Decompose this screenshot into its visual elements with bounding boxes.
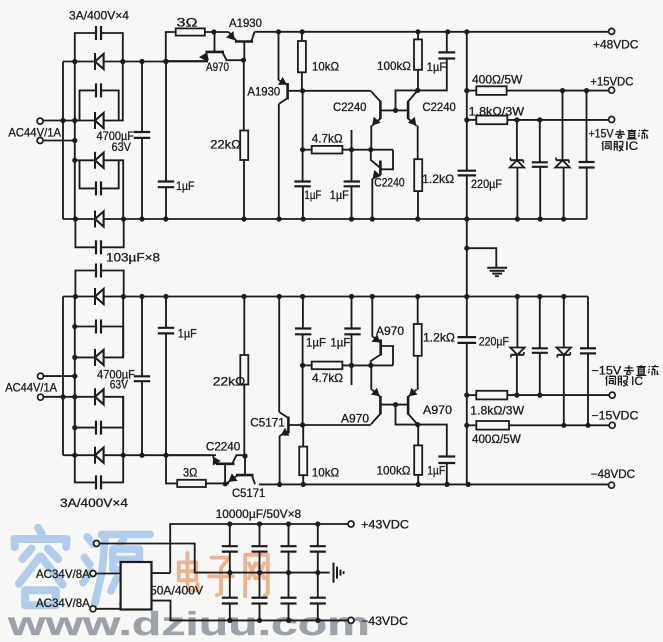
capacitor CZ6 bbox=[539, 297, 541, 349]
resistor 1.8k 3W bottom bbox=[467, 394, 477, 396]
wire Q9 base right bbox=[288, 424, 371, 426]
terminal +15V servo bbox=[609, 117, 615, 123]
terminal +48VDC bbox=[609, 28, 615, 34]
capacitor snubber C8 loop below row8 bbox=[75, 455, 96, 482]
svg-text:AC44V/1A: AC44V/1A bbox=[5, 381, 57, 395]
capacitor CZ2 bbox=[539, 120, 541, 162]
svg-text:1µF: 1µF bbox=[306, 336, 326, 350]
svg-text:4.7kΩ: 4.7kΩ bbox=[312, 132, 343, 146]
svg-text:1.2kΩ: 1.2kΩ bbox=[422, 172, 454, 186]
svg-text:22kΩ: 22kΩ bbox=[210, 138, 241, 152]
AC terminal T3 bbox=[38, 373, 44, 379]
svg-text:A970: A970 bbox=[206, 60, 229, 74]
wire 4.7k node bbox=[303, 149, 312, 151]
wire +43 to bridge block bbox=[152, 572, 171, 574]
wire 10k line up through 1uF bottom bbox=[302, 365, 304, 425]
junction dots -43 rail bbox=[227, 618, 232, 623]
wire stub below 4.7k node bottom bbox=[351, 365, 353, 385]
capacitor 1uF pair C bbox=[302, 297, 304, 329]
bus B2 vertical bbox=[74, 297, 76, 456]
watermark 电 bbox=[179, 553, 198, 591]
svg-text:−43VDC: −43VDC bbox=[361, 614, 408, 628]
svg-text:A970: A970 bbox=[376, 324, 404, 338]
svg-text:22kΩ: 22kΩ bbox=[213, 375, 246, 389]
wire 0V mid rail bbox=[63, 218, 95, 220]
wire -43 rail bbox=[152, 601, 352, 621]
svg-text:1.8kΩ/3W: 1.8kΩ/3W bbox=[469, 105, 525, 119]
svg-text:3Ω: 3Ω bbox=[177, 16, 198, 30]
svg-text:AC44V/1A: AC44V/1A bbox=[8, 126, 61, 140]
diode D3 row3 bbox=[75, 159, 95, 161]
terminal +15VDC bbox=[609, 87, 615, 93]
wire output bus vertical bbox=[466, 32, 468, 171]
AC terminal T2 bbox=[37, 138, 43, 144]
junction dots 0V rail bottom bbox=[73, 294, 78, 299]
wire 0V rail bottom bbox=[63, 296, 95, 298]
ground symbol psu bbox=[333, 563, 335, 583]
transistor C5171 Q8 pass bbox=[236, 474, 254, 477]
capacitor snubber C3 loop bbox=[80, 160, 97, 188]
capacitor bank 10000uF x8 bbox=[229, 524, 231, 546]
watermark 子 bbox=[209, 558, 233, 596]
svg-text:www.dziuu.com: www.dziuu.com bbox=[7, 605, 370, 642]
capacitor 103uF snubber C1 loop bbox=[75, 33, 96, 62]
resistor 400ohm 5W bbox=[467, 90, 477, 92]
capacitor 220uF bottom bbox=[458, 336, 477, 338]
resistor 100k bottom bbox=[417, 425, 419, 446]
junction dots mid rail bbox=[227, 570, 232, 575]
wire AC T2 to bus B bbox=[43, 140, 75, 142]
wire T3 to bus B2 bbox=[43, 375, 74, 377]
svg-text:1µF: 1µF bbox=[330, 188, 349, 202]
svg-text:10kΩ: 10kΩ bbox=[312, 466, 339, 480]
svg-text:1µF: 1µF bbox=[427, 464, 445, 478]
svg-text:C2240: C2240 bbox=[422, 100, 456, 114]
svg-text:+15V: +15V bbox=[589, 129, 614, 141]
AC terminal T1 bbox=[37, 118, 43, 124]
resistor 22k bbox=[240, 131, 248, 161]
bus B vertical bbox=[74, 62, 76, 220]
capacitor 1uF pair D bbox=[351, 297, 353, 329]
resistor 10k bbox=[301, 32, 303, 41]
diode D7 row7 bbox=[43, 396, 95, 398]
junction dots row1 bbox=[72, 59, 77, 64]
svg-text:63V: 63V bbox=[110, 378, 128, 392]
capacitor snubber C5 loop above rail bbox=[75, 271, 96, 297]
capacitor 220uF bbox=[458, 170, 477, 172]
svg-text:220µF: 220µF bbox=[479, 335, 509, 349]
ground symbol bbox=[487, 267, 507, 269]
transistor A1930 Q3 driver bbox=[278, 32, 280, 80]
wire 3ohm right to rail bbox=[205, 31, 229, 33]
wire 3ohm bottom drop bbox=[166, 455, 177, 483]
junction dots mid rail bbox=[73, 216, 78, 221]
svg-text:1.2kΩ: 1.2kΩ bbox=[423, 331, 455, 345]
wire 10k line down through 1uF bbox=[302, 91, 304, 150]
svg-text:63V: 63V bbox=[112, 140, 132, 154]
svg-text:1µF: 1µF bbox=[176, 179, 195, 193]
resistor 1.2k bbox=[414, 159, 422, 191]
wire stub above 4.7k node bbox=[351, 130, 353, 150]
wire Q1 emitter to bridge bbox=[166, 60, 208, 62]
wire ground tap bbox=[466, 219, 468, 297]
transistor C2240 Q6 bbox=[371, 150, 381, 168]
wire 3ohm left drop bbox=[166, 32, 176, 62]
wire +43 rail bbox=[170, 524, 351, 573]
svg-text:AC34V/8A: AC34V/8A bbox=[36, 596, 90, 610]
terminal -48VDC bbox=[609, 482, 615, 488]
svg-text:100kΩ: 100kΩ bbox=[377, 464, 411, 478]
AC terminal T6 bbox=[90, 606, 96, 612]
resistor 100k bbox=[417, 32, 419, 40]
capacitor CZ8 bbox=[587, 297, 589, 349]
AC terminal T4 bbox=[38, 394, 44, 400]
capacitor 1uF top right bbox=[446, 32, 448, 53]
svg-text:AC34V/8A: AC34V/8A bbox=[36, 567, 90, 581]
transistor C2240 Q4 left bbox=[371, 91, 381, 101]
watermark 容 bbox=[14, 528, 66, 606]
junction dots row8 bbox=[72, 453, 77, 458]
resistor 3 ohm bottom bbox=[177, 480, 206, 487]
terminal -15V servo bbox=[609, 392, 615, 398]
svg-text:3A/400V×4: 3A/400V×4 bbox=[60, 496, 128, 510]
svg-text:1µF: 1µF bbox=[304, 188, 321, 202]
transistor A1930 Q2 pass bbox=[235, 40, 253, 43]
terminal -15VDC bbox=[609, 422, 615, 428]
svg-text:4.7kΩ: 4.7kΩ bbox=[312, 371, 343, 385]
bridge block 50A/400V bbox=[121, 562, 152, 610]
capacitor snubber C6 loop bbox=[75, 326, 96, 328]
svg-text:C5171: C5171 bbox=[250, 416, 285, 430]
capacitor 1uF pair A bbox=[302, 150, 304, 182]
transistor C5171 Q9 driver bbox=[279, 436, 281, 484]
transistor A970 Q10 left bbox=[371, 414, 381, 425]
capacitor 4700uF bus D2 bbox=[141, 297, 143, 377]
svg-text:100kΩ: 100kΩ bbox=[377, 59, 411, 73]
junction dots -48 rail bbox=[277, 482, 282, 487]
zener ZD3 bbox=[562, 91, 564, 161]
svg-text:1µF: 1µF bbox=[427, 60, 447, 74]
svg-text:−15VDC: −15VDC bbox=[591, 409, 638, 423]
resistor 1.8k 3W bbox=[467, 119, 477, 121]
wire diff bases bottom bbox=[380, 404, 408, 406]
capacitor 1uF bus E bbox=[165, 62, 167, 182]
diode D5 on rail bbox=[94, 288, 96, 305]
svg-text:400Ω/5W: 400Ω/5W bbox=[472, 73, 523, 87]
svg-text:3Ω: 3Ω bbox=[183, 466, 197, 480]
svg-text:1µF: 1µF bbox=[330, 336, 350, 350]
capacitor 1uF bottom right bbox=[418, 425, 447, 457]
capacitor snubber C2 loop bbox=[80, 90, 97, 120]
capacitor CZ4 bbox=[586, 91, 588, 162]
watermark 网 bbox=[245, 555, 268, 596]
svg-text:+48VDC: +48VDC bbox=[593, 38, 639, 52]
wire -48 rail bbox=[259, 483, 612, 485]
svg-text:IC: IC bbox=[631, 376, 643, 388]
resistor 4.7k bottom bbox=[312, 362, 343, 370]
junction dots +43 rail bbox=[227, 521, 232, 526]
resistor 1.2k bottom bbox=[414, 324, 422, 356]
watermark 源 bbox=[83, 534, 150, 604]
wire diff bases bbox=[380, 109, 408, 111]
svg-text:1µF: 1µF bbox=[178, 327, 197, 341]
capacitor 4700uF bus D bbox=[141, 62, 143, 133]
diode D6 row6 bbox=[75, 356, 95, 358]
resistor 22k bottom bbox=[240, 355, 248, 385]
svg-text:C2240: C2240 bbox=[333, 100, 367, 114]
svg-text:A970: A970 bbox=[423, 403, 452, 417]
svg-text:10000µF/50V×8: 10000µF/50V×8 bbox=[216, 507, 302, 521]
capacitor snubber C7 loop bbox=[74, 397, 76, 428]
diode D4 on 0V rail row4 bbox=[94, 211, 96, 228]
junction dots row2 bbox=[60, 118, 65, 123]
wire Q3 base to right bbox=[288, 90, 371, 92]
transistor A970 Q11 right bbox=[408, 414, 418, 425]
svg-text:C5171: C5171 bbox=[232, 486, 266, 500]
zener ZD5 bbox=[516, 297, 518, 348]
wire 22k bottom node bbox=[243, 297, 245, 356]
svg-text:1.8kΩ/3W: 1.8kΩ/3W bbox=[470, 404, 524, 418]
svg-text:3A/400V×4: 3A/400V×4 bbox=[69, 9, 129, 23]
resistor 3 ohm bbox=[176, 28, 205, 35]
wire output bus vertical bottom bbox=[466, 297, 468, 338]
AC terminal T5 bbox=[90, 571, 96, 577]
svg-text:50A/400V: 50A/400V bbox=[150, 584, 203, 598]
transistor C2240 Q5 right bbox=[408, 90, 418, 101]
svg-text:400Ω/5W: 400Ω/5W bbox=[472, 432, 521, 446]
transistor A970 Q1 small bbox=[214, 32, 216, 52]
resistor 400ohm 5W bottom bbox=[467, 424, 477, 426]
svg-text:A1930: A1930 bbox=[247, 85, 280, 99]
svg-text:220µF: 220µF bbox=[471, 177, 502, 191]
resistor 10k bottom bbox=[302, 425, 304, 447]
resistor 4.7k bbox=[312, 146, 343, 154]
bus A2 left vertical bbox=[62, 297, 64, 456]
svg-text:C2240: C2240 bbox=[206, 440, 241, 454]
transistor A970 Q12 bbox=[371, 355, 381, 366]
svg-text:+43VDC: +43VDC bbox=[361, 518, 409, 532]
wire +48 rail bbox=[255, 31, 612, 33]
terminal -43VDC bbox=[348, 617, 354, 623]
svg-text:−48VDC: −48VDC bbox=[591, 467, 636, 481]
diode D8 row8 bbox=[63, 454, 95, 456]
capacitor 1uF bus E2 bbox=[165, 297, 167, 328]
transistor C2240 Q7 small bbox=[166, 454, 210, 456]
zener ZD7 bbox=[563, 297, 565, 348]
svg-text:10kΩ: 10kΩ bbox=[312, 60, 339, 74]
wire 4.7k node bottom bbox=[303, 364, 312, 366]
svg-text:A970: A970 bbox=[341, 412, 369, 426]
svg-text:IC: IC bbox=[625, 141, 638, 153]
svg-text:A1930: A1930 bbox=[229, 16, 262, 30]
diode D1 row1 bbox=[63, 61, 95, 63]
diode D2 row2 with AC wire bbox=[43, 120, 95, 122]
wire 22k node down bbox=[243, 60, 245, 130]
wire center tap bbox=[94, 541, 100, 547]
junction dots +48 rail bbox=[276, 29, 281, 34]
svg-text:C2240: C2240 bbox=[374, 176, 405, 190]
bus A left vertical bbox=[62, 62, 64, 220]
zener ZD1 bbox=[516, 120, 518, 160]
terminal +43VDC bbox=[348, 521, 354, 527]
svg-text:103µF×8: 103µF×8 bbox=[106, 251, 160, 265]
capacitor snubber C4 loop below rail bbox=[75, 219, 96, 247]
svg-text:+15VDC: +15VDC bbox=[590, 75, 633, 89]
capacitor 1uF pair B bbox=[351, 150, 353, 182]
